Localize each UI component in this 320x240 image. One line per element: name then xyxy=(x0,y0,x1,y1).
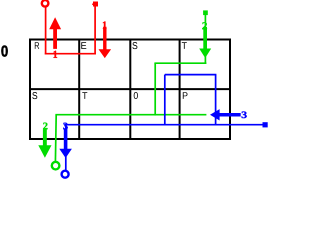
green wire vertical middle xyxy=(154,63,156,115)
red wire vertical from start circle xyxy=(45,7,47,55)
blue entry arrow left (cell P) xyxy=(210,109,241,120)
cell letter T top xyxy=(182,42,187,49)
blue wire vertical right of loop xyxy=(215,75,217,126)
green wire vertical from start square xyxy=(204,15,206,64)
red entry arrow down (cell E) xyxy=(99,27,112,58)
grid row divider xyxy=(30,88,230,90)
blue wire vertical left of loop xyxy=(164,75,166,126)
blue exit arrow down (bottom) xyxy=(59,128,72,158)
grid column line 3 xyxy=(179,40,181,140)
big label 0 at left xyxy=(1,46,7,57)
blue wire horizontal upper xyxy=(165,74,217,76)
grid outer border xyxy=(30,40,230,140)
cell letter T bottom xyxy=(82,92,87,99)
label 2 at green entry arrow xyxy=(202,22,207,29)
blue wire horizontal main xyxy=(64,124,262,126)
red wire horizontal xyxy=(45,53,96,55)
label 2 at green exit arrow xyxy=(43,123,47,130)
green entry arrow down (cell T top) xyxy=(199,27,211,58)
grid column line 2 xyxy=(129,40,131,140)
red wire vertical to end square xyxy=(94,4,96,55)
red start terminal circle xyxy=(42,0,49,7)
blue wire vertical to exit circle xyxy=(65,125,67,172)
green start terminal square xyxy=(203,10,208,15)
red end terminal square xyxy=(93,2,98,7)
green exit arrow down (bottom) xyxy=(38,129,51,157)
label 3 at blue exit arrow xyxy=(63,123,67,130)
blue end terminal circle xyxy=(62,171,69,178)
label 1 under red exit arrow xyxy=(54,51,58,58)
label 1 above red entry arrow xyxy=(103,21,107,28)
label 3 at blue entry arrow xyxy=(242,111,247,118)
cell letter P bottom xyxy=(183,92,188,99)
cell letter S top xyxy=(132,42,137,49)
grid column line 1 xyxy=(78,40,80,140)
green wire vertical to exit circle xyxy=(54,115,57,162)
cell letter E xyxy=(81,42,86,49)
cell letter R xyxy=(35,42,39,49)
red exit arrow up (cell R) xyxy=(49,17,61,49)
green wire horizontal lower xyxy=(55,114,206,116)
red square nub xyxy=(92,4,93,6)
green wire horizontal upper xyxy=(154,62,206,64)
cell letter S bottom xyxy=(32,92,37,99)
green end terminal circle xyxy=(52,162,60,170)
blue start terminal square (right) xyxy=(263,122,268,127)
cell letter 0 bottom xyxy=(134,92,138,99)
